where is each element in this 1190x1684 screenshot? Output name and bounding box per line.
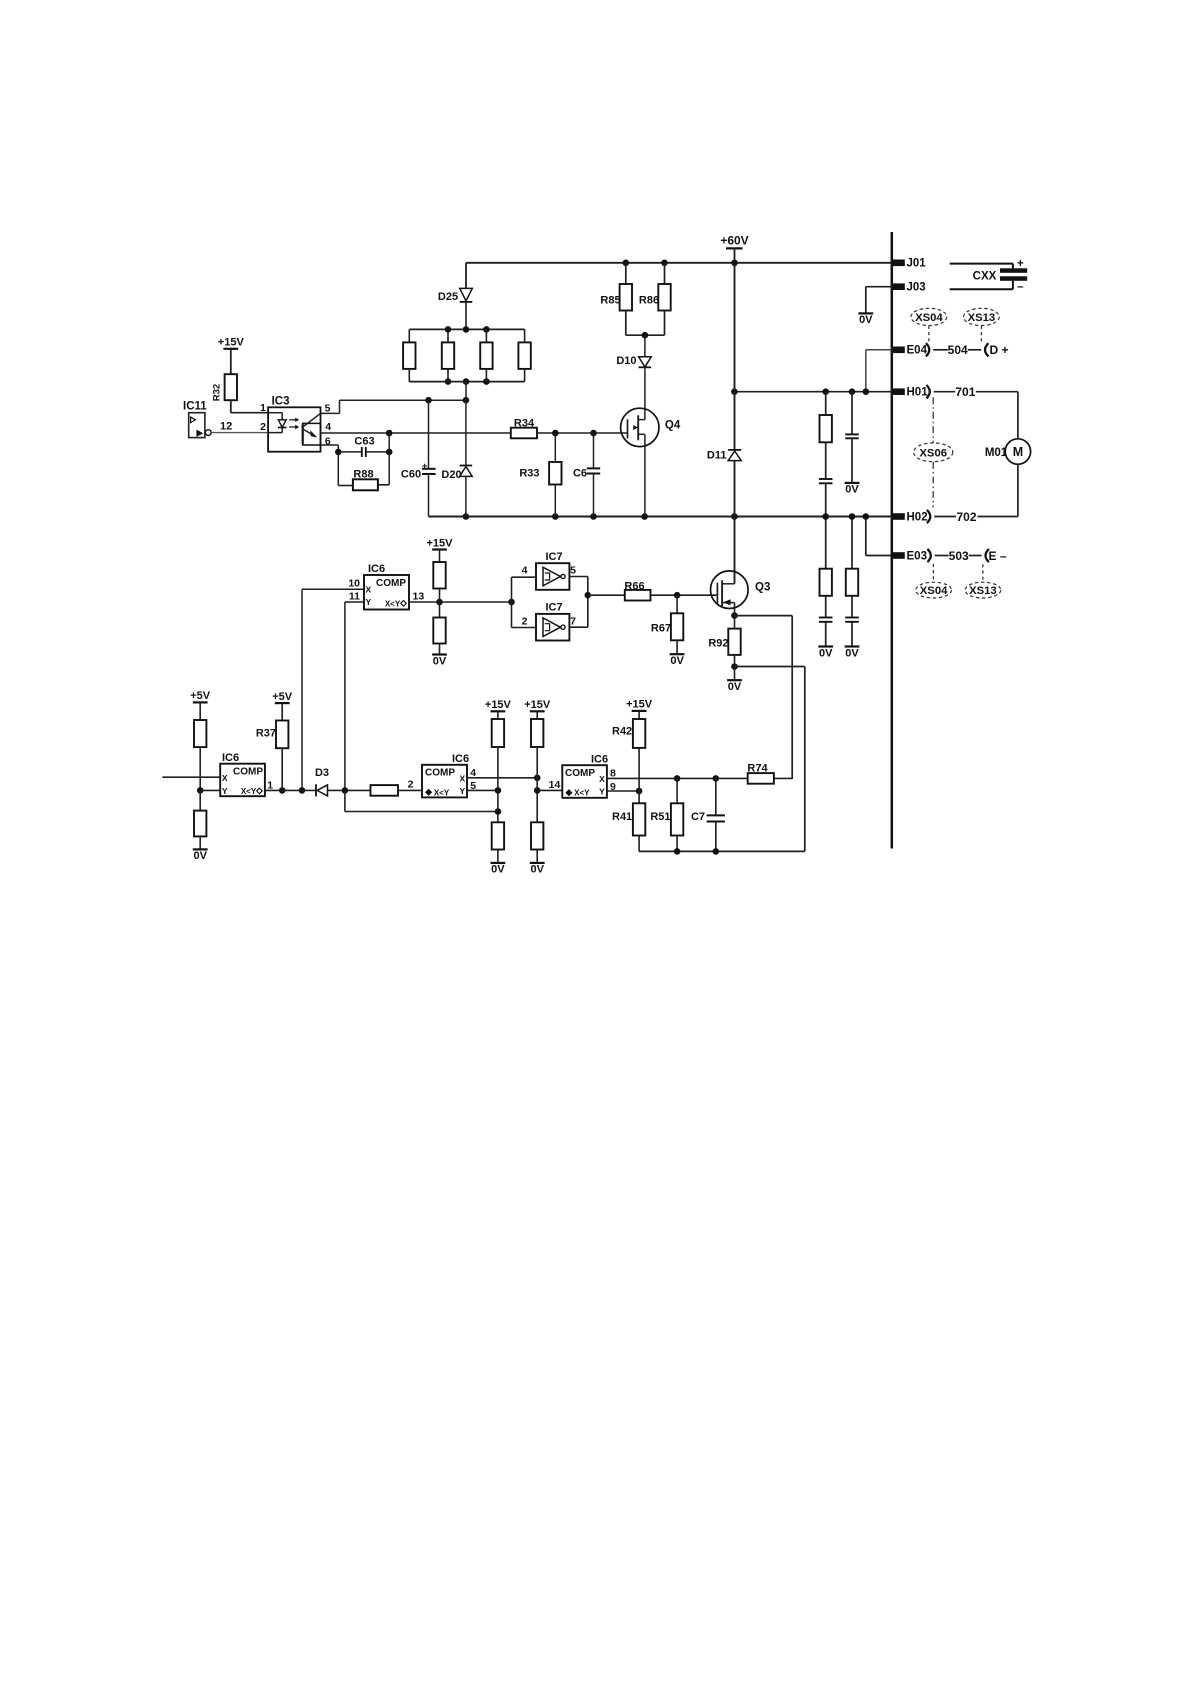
svg-text:2: 2 — [260, 421, 266, 433]
svg-text:XS13: XS13 — [968, 312, 996, 324]
svg-text:IC6: IC6 — [368, 563, 385, 575]
svg-text:R33: R33 — [519, 468, 539, 480]
svg-text:IC7: IC7 — [546, 602, 563, 614]
svg-text:IC3: IC3 — [272, 396, 290, 408]
svg-text:XS13: XS13 — [969, 585, 997, 597]
svg-text:H02: H02 — [907, 511, 928, 523]
svg-text:0V: 0V — [859, 314, 873, 326]
svg-text:+15V: +15V — [427, 537, 454, 549]
svg-text:XS04: XS04 — [920, 585, 948, 597]
svg-text:X: X — [365, 585, 371, 595]
svg-text:Y: Y — [599, 787, 605, 797]
svg-text:D25: D25 — [438, 291, 458, 303]
svg-text:2: 2 — [408, 779, 414, 791]
svg-text:J03: J03 — [907, 282, 926, 294]
svg-text:D +: D + — [989, 343, 1008, 357]
svg-text:10: 10 — [348, 577, 360, 589]
svg-text:D20: D20 — [441, 469, 461, 481]
svg-text:503: 503 — [949, 549, 969, 563]
svg-text:0V: 0V — [819, 647, 833, 659]
svg-text:IC11: IC11 — [183, 400, 207, 412]
svg-text:Q3: Q3 — [755, 582, 770, 594]
svg-text:CXX: CXX — [973, 271, 997, 283]
svg-text:X<Y: X<Y — [434, 788, 450, 797]
svg-text:2: 2 — [522, 615, 528, 627]
svg-text:E04: E04 — [907, 345, 928, 357]
svg-text:7: 7 — [570, 615, 576, 627]
svg-text:R32: R32 — [212, 384, 223, 401]
svg-text:–: – — [1017, 281, 1024, 293]
svg-text:E –: E – — [988, 549, 1006, 563]
svg-text:X: X — [459, 774, 465, 784]
svg-text:X<Y: X<Y — [574, 789, 590, 798]
svg-text:0V: 0V — [845, 484, 859, 496]
svg-text:Q4: Q4 — [665, 419, 681, 431]
svg-text:R92: R92 — [708, 637, 728, 649]
svg-text:+: + — [1017, 258, 1024, 270]
svg-text:+15V: +15V — [626, 699, 653, 711]
svg-text:R67: R67 — [651, 622, 671, 634]
svg-text:C6: C6 — [573, 468, 587, 480]
svg-text:13: 13 — [413, 590, 425, 602]
svg-text:R86: R86 — [639, 294, 659, 306]
svg-text:IC6: IC6 — [452, 753, 469, 765]
svg-text:J01: J01 — [907, 258, 927, 270]
svg-text:IC6: IC6 — [222, 752, 239, 764]
svg-text:X<Y: X<Y — [385, 599, 401, 608]
svg-text:XS04: XS04 — [915, 312, 943, 324]
svg-text:D11: D11 — [707, 449, 727, 461]
svg-text:5: 5 — [570, 565, 576, 577]
svg-text:11: 11 — [349, 591, 360, 603]
svg-text:X: X — [222, 773, 228, 783]
svg-text:R37: R37 — [256, 727, 276, 739]
svg-text:Y: Y — [365, 597, 371, 607]
svg-text:0V: 0V — [491, 864, 505, 876]
svg-text:M01: M01 — [985, 447, 1008, 459]
svg-text:COMP: COMP — [565, 768, 595, 779]
svg-text:D10: D10 — [616, 355, 636, 367]
svg-text:Y: Y — [222, 786, 228, 796]
svg-text:14: 14 — [549, 779, 561, 791]
svg-text:+15V: +15V — [218, 337, 245, 349]
svg-text:0V: 0V — [728, 681, 742, 693]
svg-text:C60: C60 — [401, 469, 421, 481]
svg-text:D3: D3 — [315, 767, 329, 779]
svg-text:+60V: +60V — [720, 234, 748, 248]
svg-text:4: 4 — [522, 564, 528, 576]
svg-text:XS06: XS06 — [919, 447, 947, 459]
svg-text:COMP: COMP — [376, 578, 406, 589]
svg-text:R85: R85 — [600, 294, 620, 306]
svg-text:0V: 0V — [845, 647, 859, 659]
svg-text:IC6: IC6 — [591, 753, 608, 765]
svg-text:+5V: +5V — [272, 691, 293, 703]
svg-text:4: 4 — [325, 421, 331, 433]
svg-text:M: M — [1013, 445, 1023, 459]
svg-text:0V: 0V — [433, 655, 447, 667]
svg-text:C7: C7 — [691, 811, 705, 823]
svg-text:R41: R41 — [612, 811, 632, 823]
svg-text:12: 12 — [220, 421, 232, 433]
svg-text:E03: E03 — [907, 550, 927, 562]
svg-text:+: + — [422, 461, 428, 472]
svg-text:R42: R42 — [612, 725, 632, 737]
svg-text:+15V: +15V — [485, 699, 512, 711]
svg-text:Y: Y — [459, 786, 465, 796]
svg-text:C63: C63 — [354, 436, 374, 448]
svg-text:0V: 0V — [530, 864, 544, 876]
svg-text:R51: R51 — [650, 811, 670, 823]
svg-text:IC7: IC7 — [546, 551, 563, 563]
svg-text:X: X — [599, 774, 605, 784]
svg-text:702: 702 — [956, 510, 976, 524]
svg-text:COMP: COMP — [233, 766, 263, 777]
svg-text:X<Y: X<Y — [241, 787, 257, 796]
svg-text:504: 504 — [948, 343, 968, 357]
svg-text:701: 701 — [955, 385, 975, 399]
svg-text:+5V: +5V — [190, 690, 211, 702]
svg-text:COMP: COMP — [425, 768, 455, 779]
svg-text:1: 1 — [260, 402, 266, 414]
svg-text:0V: 0V — [193, 850, 207, 862]
svg-text:+15V: +15V — [524, 699, 551, 711]
svg-text:H01: H01 — [907, 387, 929, 399]
svg-text:0V: 0V — [670, 655, 684, 667]
